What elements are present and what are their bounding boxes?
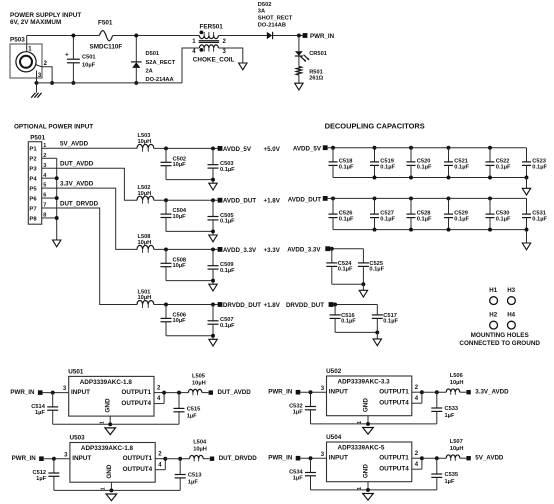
svg-text:2: 2 xyxy=(415,385,419,391)
wire decoupling bottom bus AVDD_5V xyxy=(333,176,528,180)
svg-text:0.1µF: 0.1µF xyxy=(369,267,384,273)
svg-text:DRVDD_DUT: DRVDD_DUT xyxy=(223,302,261,309)
wire net 5V_AVDD from P1 xyxy=(49,141,138,149)
wire cap bottoms DRVDD_DUT xyxy=(166,334,215,340)
svg-text:DO-214AB: DO-214AB xyxy=(258,23,286,29)
wire U503 pin 3 input xyxy=(44,452,70,460)
node PWR_IN U503 xyxy=(12,455,44,462)
wire decoupling DRVDD_DUT bus xyxy=(333,303,377,307)
svg-text:3: 3 xyxy=(321,386,325,392)
node DRVDD_DUT xyxy=(218,302,281,309)
ground U503 xyxy=(106,494,117,501)
capacitor C530 0.1uF xyxy=(486,198,511,229)
svg-text:2: 2 xyxy=(43,153,46,159)
svg-text:SMDC110F: SMDC110F xyxy=(90,44,123,51)
svg-text:GND: GND xyxy=(362,398,369,413)
capacitor C527 0.1uF xyxy=(370,198,395,229)
svg-text:C512: C512 xyxy=(32,470,46,476)
svg-text:2: 2 xyxy=(223,39,227,45)
svg-text:P6: P6 xyxy=(29,196,37,202)
svg-text:2: 2 xyxy=(158,451,162,457)
svg-text:2: 2 xyxy=(44,61,48,67)
svg-text:PWR_IN: PWR_IN xyxy=(268,455,293,462)
svg-text:0.1µF: 0.1µF xyxy=(220,219,235,225)
svg-text:CONNECTED TO GROUND: CONNECTED TO GROUND xyxy=(459,340,540,347)
svg-text:10µH: 10µH xyxy=(450,380,464,386)
capacitor C520 0.1uF xyxy=(407,148,432,178)
svg-text:PWR_IN: PWR_IN xyxy=(12,455,37,462)
capacitor C525 0.1uF xyxy=(358,249,385,285)
P503 pin 2 wire xyxy=(36,61,55,85)
capacitor C505 0.1uF xyxy=(208,200,236,231)
svg-text:7: 7 xyxy=(43,203,46,209)
inductor L504 10uH xyxy=(190,440,210,462)
svg-text:+: + xyxy=(65,52,69,59)
wire FER501 pin3 to ground xyxy=(218,48,242,63)
svg-text:CHOKE_COIL: CHOKE_COIL xyxy=(193,57,235,64)
inductor L508 10uH xyxy=(137,234,154,253)
capacitor C534 1uF xyxy=(289,458,316,490)
svg-text:MOUNTING HOLES: MOUNTING HOLES xyxy=(471,332,529,339)
node AVDD_DUT xyxy=(218,198,281,205)
ground rail AVDD_5V xyxy=(209,183,217,190)
svg-text:C532: C532 xyxy=(289,404,303,410)
svg-text:0.1µF: 0.1µF xyxy=(417,164,432,170)
node 3.3V_AVDD U502 xyxy=(466,389,509,396)
svg-text:10µH: 10µH xyxy=(450,446,464,452)
P501 pin 4 stub xyxy=(42,173,57,179)
svg-text:H4: H4 xyxy=(507,312,515,319)
inductor L505 10uH xyxy=(188,374,208,396)
svg-text:L505: L505 xyxy=(192,374,205,380)
svg-text:ADP3339AKC-1.8: ADP3339AKC-1.8 xyxy=(81,445,134,452)
capacitor C518 0.1uF xyxy=(329,148,354,178)
wire decoupling top bus AVDD_DUT xyxy=(328,196,527,200)
svg-text:AVDD_3.3V: AVDD_3.3V xyxy=(223,247,257,254)
svg-text:C515: C515 xyxy=(187,407,201,413)
svg-text:OUTPUT4: OUTPUT4 xyxy=(123,466,153,473)
capacitor C509 0.1uF xyxy=(208,249,236,280)
svg-text:10µF: 10µF xyxy=(173,318,187,324)
capacitor C506 10uF xyxy=(161,305,187,336)
wire top rail xyxy=(27,35,200,37)
svg-text:+1.8V: +1.8V xyxy=(264,198,281,205)
svg-text:DRVDD_DUT: DRVDD_DUT xyxy=(286,302,324,309)
capacitor C528 0.1uF xyxy=(407,198,432,229)
svg-text:P3: P3 xyxy=(29,167,37,173)
svg-text:10µH: 10µH xyxy=(193,447,207,453)
wire bottom AVDD_3.3V xyxy=(332,282,366,290)
svg-text:P501: P501 xyxy=(30,134,45,141)
svg-text:5: 5 xyxy=(43,183,46,189)
svg-text:U502: U502 xyxy=(326,368,342,375)
svg-text:1µF: 1µF xyxy=(445,413,455,419)
capacitor C515 1uF xyxy=(174,393,201,425)
capacitor C504 10uF xyxy=(161,200,187,231)
svg-text:2: 2 xyxy=(157,385,161,391)
svg-text:AVDD_DUT: AVDD_DUT xyxy=(223,198,256,205)
svg-text:1: 1 xyxy=(192,39,196,45)
ground rail AVDD_DUT xyxy=(209,235,217,242)
svg-text:OUTPUT1: OUTPUT1 xyxy=(121,389,151,396)
choke FER501 CHOKE_COIL xyxy=(192,24,234,64)
node DUT_DRVDD U503 xyxy=(210,455,257,462)
svg-text:GND: GND xyxy=(106,464,113,479)
svg-text:OUTPUT1: OUTPUT1 xyxy=(123,455,153,462)
svg-text:2: 2 xyxy=(415,451,419,457)
wire U503 ground rail xyxy=(54,482,180,492)
wire CR501 to R501 xyxy=(298,56,300,67)
P503 pin 1 wire xyxy=(27,36,33,53)
svg-text:+5.0V: +5.0V xyxy=(264,146,281,153)
wire U504 output to inductor xyxy=(422,456,446,460)
regulator U504 ADP3339AKC-5 xyxy=(326,434,412,482)
svg-text:DECOUPLING CAPACITORS: DECOUPLING CAPACITORS xyxy=(325,122,425,131)
svg-text:0.1µF: 0.1µF xyxy=(454,164,469,170)
node PWR_IN U502 xyxy=(268,389,300,396)
svg-text:POWER SUPPLY INPUT: POWER SUPPLY INPUT xyxy=(10,12,81,19)
svg-text:4: 4 xyxy=(158,462,162,468)
svg-text:P1: P1 xyxy=(29,147,37,153)
node PWR_IN U504 xyxy=(268,455,300,462)
svg-text:AVDD_5V: AVDD_5V xyxy=(223,146,252,153)
wire P501 ground bus xyxy=(55,158,59,240)
svg-text:0.1µF: 0.1µF xyxy=(339,217,354,223)
P501 pin 5 stub xyxy=(42,183,49,189)
svg-text:3.3V_AVDD: 3.3V_AVDD xyxy=(475,389,509,396)
svg-text:+3.3V: +3.3V xyxy=(264,247,281,254)
svg-text:10µH: 10µH xyxy=(138,295,152,301)
svg-text:+1.8V: +1.8V xyxy=(264,302,281,309)
svg-text:D502: D502 xyxy=(258,2,272,8)
svg-text:10µH: 10µH xyxy=(138,191,152,197)
inductor L503 10uH xyxy=(137,133,154,152)
svg-text:1: 1 xyxy=(28,47,32,53)
svg-text:0.1µF: 0.1µF xyxy=(383,319,398,325)
connector P503 xyxy=(10,37,42,78)
wire U501 pins 2 and 4 xyxy=(154,385,166,403)
wire U502 pin 3 input xyxy=(300,386,326,394)
svg-text:SHOT_RECT: SHOT_RECT xyxy=(258,16,293,22)
svg-text:0.1µF: 0.1µF xyxy=(380,217,395,223)
svg-text:GND: GND xyxy=(362,464,369,479)
svg-text:DUT_DRVDD: DUT_DRVDD xyxy=(219,455,258,462)
fuse F501 SMDC110F xyxy=(90,19,123,50)
wire U502 output to inductor xyxy=(422,390,446,394)
svg-text:3A: 3A xyxy=(258,9,265,15)
svg-text:OUTPUT4: OUTPUT4 xyxy=(121,400,151,407)
capacitor C501 10uF xyxy=(65,34,96,85)
svg-text:INPUT: INPUT xyxy=(329,455,348,462)
capacitor C513 1uF xyxy=(175,459,202,491)
P503 pin 3 wire xyxy=(35,71,42,85)
svg-text:8: 8 xyxy=(43,213,46,219)
regulator U503 ADP3339AKC-1.8 xyxy=(70,435,156,483)
wire U504 pins 2 and 4 xyxy=(412,451,424,469)
wire cap bottoms AVDD_DUT xyxy=(166,229,215,235)
node decoupling AVDD_5V xyxy=(293,145,328,152)
svg-text:10µF: 10µF xyxy=(82,63,96,69)
ground U502 xyxy=(363,428,374,435)
P501 pin 8 stub xyxy=(42,213,57,219)
svg-text:P4: P4 xyxy=(29,177,37,183)
svg-text:0.1µF: 0.1µF xyxy=(220,268,235,274)
mounting hole H1 xyxy=(489,287,497,305)
svg-text:AVDD_3.3V: AVDD_3.3V xyxy=(287,246,321,253)
svg-text:4: 4 xyxy=(415,396,419,402)
svg-text:ADP3339AKC-5: ADP3339AKC-5 xyxy=(338,445,385,452)
ground decoupling AVDD_5V xyxy=(522,178,530,196)
wire U503 output to inductor xyxy=(165,457,189,461)
svg-text:0.1µF: 0.1µF xyxy=(341,319,356,325)
svg-text:0.1µF: 0.1µF xyxy=(220,167,235,173)
capacitor C529 0.1uF xyxy=(444,198,469,229)
title DECOUPLING CAPACITORS xyxy=(325,122,425,131)
wire U504 pin 3 input xyxy=(300,452,326,460)
svg-text:5V_AVDD: 5V_AVDD xyxy=(475,455,504,462)
ground R501 xyxy=(295,83,303,90)
svg-text:L504: L504 xyxy=(193,440,207,446)
svg-text:C514: C514 xyxy=(31,404,45,410)
node decoupling AVDD_DUT xyxy=(288,196,328,203)
svg-text:1: 1 xyxy=(357,487,363,490)
capacitor C512 1uF xyxy=(32,459,59,491)
ground P501 xyxy=(53,240,61,247)
capacitor C508 10uF xyxy=(161,249,187,280)
svg-text:0.1µF: 0.1µF xyxy=(454,217,469,223)
svg-text:AVDD_DUT: AVDD_DUT xyxy=(288,196,321,203)
svg-text:10µF: 10µF xyxy=(173,162,187,168)
wire U501 ground rail xyxy=(53,416,179,426)
svg-text:1µF: 1µF xyxy=(293,476,303,482)
svg-text:INPUT: INPUT xyxy=(329,389,348,396)
svg-text:1µF: 1µF xyxy=(36,476,46,482)
svg-text:10µF: 10µF xyxy=(173,214,187,220)
svg-text:P503: P503 xyxy=(10,37,25,44)
node DUT_AVDD U501 xyxy=(209,389,252,396)
svg-text:OPTIONAL POWER INPUT: OPTIONAL POWER INPUT xyxy=(14,124,93,131)
svg-text:U504: U504 xyxy=(326,434,342,441)
svg-text:6: 6 xyxy=(43,193,46,199)
node decoupling DRVDD_DUT xyxy=(286,302,333,309)
svg-text:0.1µF: 0.1µF xyxy=(532,217,547,223)
svg-text:4: 4 xyxy=(415,462,419,468)
label mounting holes xyxy=(459,332,540,347)
svg-text:1µF: 1µF xyxy=(293,410,303,416)
wire U501 output to inductor xyxy=(164,391,188,395)
regulator U502 ADP3339AKC-3.3 xyxy=(326,368,412,416)
wire FER501 pin4 to bottom rail xyxy=(182,48,199,83)
svg-text:P8: P8 xyxy=(29,216,37,222)
wire decoupling top bus AVDD_5V xyxy=(328,146,527,150)
wire net DUT_DRVDD from P7 xyxy=(49,200,138,304)
svg-text:0.1µF: 0.1µF xyxy=(380,164,395,170)
svg-text:PWR_IN: PWR_IN xyxy=(268,389,293,396)
wire rail AVDD_5V xyxy=(154,146,218,150)
inductor L501 10uH xyxy=(137,289,154,308)
node AVDD_3.3V xyxy=(218,247,281,254)
mounting hole H4 xyxy=(507,312,515,329)
ground decoupling DRVDD_DUT xyxy=(373,339,381,346)
diode D501 S2A_RECT xyxy=(131,34,176,85)
svg-text:AVDD_5V: AVDD_5V xyxy=(293,146,322,153)
svg-text:GND: GND xyxy=(105,398,112,413)
svg-text:S2A_RECT: S2A_RECT xyxy=(146,60,176,66)
svg-text:OUTPUT4: OUTPUT4 xyxy=(379,465,409,472)
svg-text:H2: H2 xyxy=(489,312,497,319)
capacitor C522 0.1uF xyxy=(486,148,511,178)
svg-text:L507: L507 xyxy=(450,439,463,445)
svg-text:1: 1 xyxy=(357,421,363,424)
svg-text:10µH: 10µH xyxy=(192,380,206,386)
capacitor C519 0.1uF xyxy=(370,148,395,178)
svg-text:3: 3 xyxy=(63,386,67,392)
svg-text:10µF: 10µF xyxy=(173,263,187,269)
svg-text:H3: H3 xyxy=(507,287,515,294)
wire decoupling bottom bus AVDD_DUT xyxy=(333,228,528,232)
capacitor C526 0.1uF xyxy=(329,198,354,229)
capacitor C531 0.1uF xyxy=(522,198,547,229)
ground decoupling AVDD_DUT xyxy=(522,230,530,250)
svg-text:0.1µF: 0.1µF xyxy=(338,267,353,273)
svg-text:6V, 2V MAXIMUM: 6V, 2V MAXIMUM xyxy=(10,19,61,26)
svg-text:U501: U501 xyxy=(68,368,84,375)
svg-text:INPUT: INPUT xyxy=(71,389,90,396)
svg-text:L506: L506 xyxy=(450,373,463,379)
svg-text:ADP3339AKC-1.8: ADP3339AKC-1.8 xyxy=(80,379,133,386)
resistor R501 261ohm xyxy=(296,67,323,82)
diode D502 SHOT_RECT xyxy=(258,2,293,39)
svg-text:0.1µF: 0.1µF xyxy=(220,323,235,329)
svg-text:U503: U503 xyxy=(70,435,86,442)
wire decoupling AVDD_3.3V bus xyxy=(330,247,364,251)
svg-text:4: 4 xyxy=(192,49,196,55)
svg-text:0.1µF: 0.1µF xyxy=(417,217,432,223)
svg-text:ADP3339AKC-3.3: ADP3339AKC-3.3 xyxy=(338,379,391,386)
wire U503 pins 2 and 4 xyxy=(155,451,167,469)
svg-text:F501: F501 xyxy=(98,19,113,26)
capacitor C533 1uF xyxy=(431,392,458,424)
svg-text:0.1µF: 0.1µF xyxy=(339,164,354,170)
svg-text:10µH: 10µH xyxy=(138,240,152,246)
svg-text:C534: C534 xyxy=(289,470,303,476)
svg-text:DO-214AA: DO-214AA xyxy=(146,77,174,83)
capacitor C535 1uF xyxy=(431,458,458,490)
wire cap bottoms AVDD_5V xyxy=(166,178,215,184)
node decoupling AVDD_3.3V xyxy=(287,246,330,253)
svg-text:P2: P2 xyxy=(29,157,37,163)
ground decoupling AVDD_3.3V xyxy=(359,290,367,297)
svg-text:CR501: CR501 xyxy=(309,51,327,57)
svg-text:0.1µF: 0.1µF xyxy=(496,217,511,223)
wire rail AVDD_3.3V xyxy=(154,247,218,251)
P501 pin 2 stub xyxy=(42,153,57,159)
node 5V_AVDD U504 xyxy=(466,455,504,462)
wire U501 pin 3 input xyxy=(43,386,69,394)
LED CR501 xyxy=(295,51,327,62)
mounting hole H2 xyxy=(489,312,497,329)
svg-text:1: 1 xyxy=(43,143,46,149)
wire PWR_IN to CR501 xyxy=(298,36,300,52)
svg-text:OUTPUT1: OUTPUT1 xyxy=(379,389,409,396)
svg-text:C513: C513 xyxy=(188,473,202,479)
title OPTIONAL POWER INPUT xyxy=(14,124,93,131)
title POWER SUPPLY INPUT xyxy=(10,12,81,26)
connector P501 xyxy=(28,134,45,224)
svg-text:0.1µF: 0.1µF xyxy=(496,164,511,170)
P501 pin 1 stub xyxy=(42,143,49,149)
svg-text:P5: P5 xyxy=(29,187,37,193)
P501 pin 7 stub xyxy=(42,203,49,209)
P501 pin 6 stub xyxy=(42,193,57,199)
svg-text:DUT_AVDD: DUT_AVDD xyxy=(218,389,252,396)
svg-text:C535: C535 xyxy=(445,472,459,478)
capacitor C517 0.1uF xyxy=(372,305,399,333)
capacitor C503 0.1uF xyxy=(208,148,236,179)
svg-text:P7: P7 xyxy=(29,206,37,212)
wire U502 ground rail xyxy=(311,416,437,426)
wire net 3.3V_AVDD from P5 xyxy=(49,181,138,250)
ground U501 xyxy=(105,428,116,435)
inductor L507 10uH xyxy=(446,439,466,461)
svg-text:261Ω: 261Ω xyxy=(309,75,323,81)
node AVDD_5V xyxy=(218,146,281,153)
svg-text:OUTPUT1: OUTPUT1 xyxy=(379,455,409,462)
svg-text:C533: C533 xyxy=(445,406,459,412)
wire FER501 pin2 to D502 xyxy=(218,35,266,37)
svg-text:D501: D501 xyxy=(146,51,160,57)
svg-text:3: 3 xyxy=(223,49,227,55)
svg-text:1µF: 1µF xyxy=(187,413,197,419)
svg-text:4: 4 xyxy=(157,396,161,402)
wire bottom rail xyxy=(37,82,183,84)
wire rail AVDD_DUT xyxy=(154,198,218,202)
svg-text:H1: H1 xyxy=(489,287,497,294)
wire U502 pins 2 and 4 xyxy=(412,385,424,403)
svg-text:FER501: FER501 xyxy=(200,24,224,31)
svg-text:1: 1 xyxy=(101,487,107,490)
svg-text:1: 1 xyxy=(99,421,105,424)
svg-text:PWR_IN: PWR_IN xyxy=(310,33,335,40)
svg-text:PWR_IN: PWR_IN xyxy=(10,389,35,396)
capacitor C514 1uF xyxy=(31,393,58,425)
inductor L506 10uH xyxy=(446,373,466,395)
svg-text:3: 3 xyxy=(43,163,46,169)
ground rail DRVDD_DUT xyxy=(209,339,217,346)
svg-text:OUTPUT4: OUTPUT4 xyxy=(379,399,409,406)
node PWR_IN U501 xyxy=(10,389,42,396)
wire net DUT_AVDD from P3 xyxy=(49,161,138,201)
ground rail AVDD_3.3V xyxy=(209,284,217,291)
svg-text:INPUT: INPUT xyxy=(72,455,91,462)
svg-text:DUT_DRVDD: DUT_DRVDD xyxy=(60,200,99,207)
svg-text:1µF: 1µF xyxy=(188,480,198,486)
regulator U501 ADP3339AKC-1.8 xyxy=(68,368,154,416)
inductor L502 10uH xyxy=(137,185,154,204)
svg-text:2A: 2A xyxy=(146,68,153,74)
svg-text:0.1µF: 0.1µF xyxy=(532,164,547,170)
wire U504 ground rail xyxy=(311,482,437,492)
wire bottom DRVDD_DUT xyxy=(335,330,379,338)
svg-text:3: 3 xyxy=(321,452,325,458)
earth ground P503 xyxy=(31,83,41,98)
capacitor C502 10uF xyxy=(161,148,187,179)
svg-text:1µF: 1µF xyxy=(445,479,455,485)
wire D502 to PWR_IN node xyxy=(273,34,303,38)
capacitor C524 0.1uF xyxy=(326,249,353,285)
capacitor C521 0.1uF xyxy=(444,148,469,178)
svg-text:3.3V_AVDD: 3.3V_AVDD xyxy=(60,181,94,188)
